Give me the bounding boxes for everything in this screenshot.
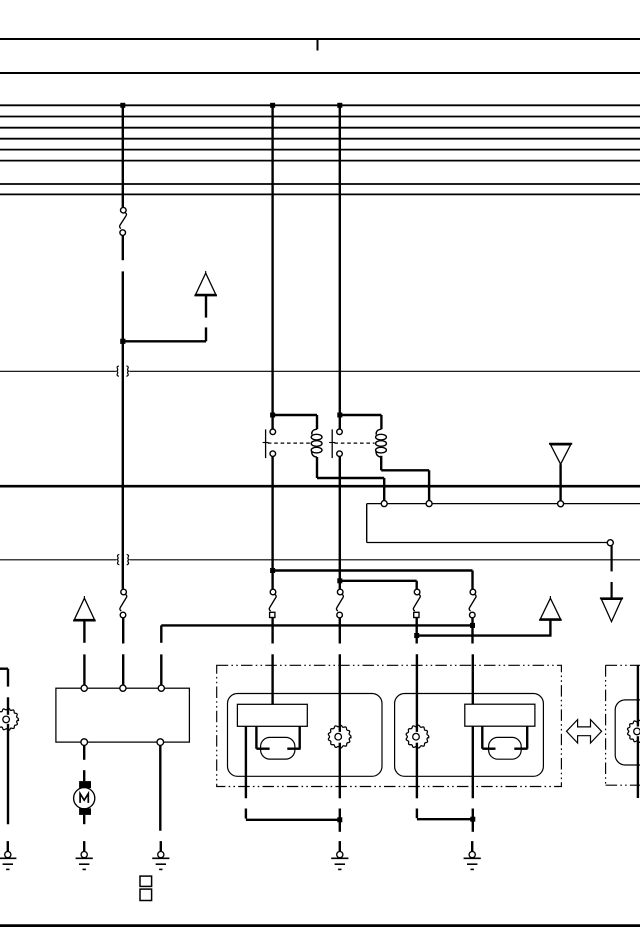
relay R1 switch bar <box>263 429 269 458</box>
terminal pin on connector line x384 <box>381 501 387 507</box>
terminal pin on connector line x429 <box>426 501 432 507</box>
boundary line 2 right segment <box>130 559 640 561</box>
ground G1 (left lamp) <box>0 841 16 869</box>
arrow D1 from other page (down) <box>549 444 572 464</box>
junction box J/B <box>56 688 190 742</box>
wire resumed into lamp LP0 <box>7 697 9 715</box>
fuse F4 <box>336 589 343 618</box>
wire lamp LP1 resumed <box>339 809 341 832</box>
lamp assembly 1 rounded outline <box>228 694 383 777</box>
bulb B1 (tail/stop lamp) <box>261 737 295 759</box>
wire connector line 1 <box>367 503 640 505</box>
wire fuse F6 into right housing <box>472 654 474 704</box>
node junction C on bundle <box>337 103 342 108</box>
wire housing2 output resumed <box>472 809 474 832</box>
bulb B2 (tail/stop lamp) <box>489 737 522 759</box>
wire below fuse F2 <box>122 618 124 644</box>
bulb B1 leg left <box>256 726 269 748</box>
lamp LP0 (side marker) <box>0 708 19 730</box>
boundary line 2 break hooks <box>117 554 129 564</box>
terminal box top 1 <box>81 685 87 691</box>
wire below pin to arrow D2 upper <box>610 546 612 572</box>
wire below fuse F3 <box>271 618 273 644</box>
wire below fuse F4 <box>339 618 341 644</box>
terminal box bottom 2 <box>157 739 164 746</box>
wire below fuse F5 <box>416 618 418 644</box>
lamp LP1 (turn signal) <box>328 725 351 748</box>
wire into coil L2 <box>380 415 382 429</box>
connector code square 1 <box>140 876 152 886</box>
relay R1 contact top <box>270 429 276 435</box>
node junction I <box>337 817 342 822</box>
wire lamp LP1 lower <box>339 743 341 799</box>
wire relay R1 top to coil <box>273 414 317 416</box>
ground G2 (motor) <box>76 841 93 869</box>
motor M brush bottom <box>79 808 91 815</box>
wire power bundle line 5 <box>0 149 640 151</box>
node junction relay R2 top <box>337 413 342 418</box>
arrow A3 from other page (up) <box>539 596 562 620</box>
ground G3 <box>152 841 169 869</box>
wire arrow branch vertical lower <box>205 327 207 341</box>
relay R1 contact bottom <box>270 451 276 457</box>
wire housing1 output <box>245 726 247 798</box>
arrow D2 to other page (down) <box>600 598 623 621</box>
wire power bundle line 4 <box>0 138 640 140</box>
wire arrow A3 down corner <box>549 620 551 636</box>
node junction H <box>470 623 475 628</box>
wire fuse F2 to box terminal <box>122 654 124 685</box>
wire coil L1 output step <box>317 457 384 501</box>
tick on bus line 1 <box>317 39 319 51</box>
bulb housing connector 2 <box>465 704 535 726</box>
wire arrow branch vertical upper <box>205 295 207 317</box>
lamp LP2 (turn signal) <box>406 725 429 748</box>
wire power bundle line 7 <box>0 183 640 185</box>
relay R2 switch bar <box>329 429 335 458</box>
right partial lamp assembly rounded outline <box>615 700 640 765</box>
terminal pin end of connector line 2 <box>607 540 613 546</box>
terminal box top 3 <box>158 685 164 691</box>
wire horizontal bus line 2 <box>0 72 640 74</box>
node junction A on bundle <box>120 103 125 108</box>
wire bus to arrow A3 <box>416 634 552 636</box>
wire arrow A2 to box terminal <box>83 654 85 685</box>
terminal pin on connector line x560 <box>558 501 564 507</box>
wire power bundle line 1 <box>0 104 640 106</box>
wire junction D down trunk <box>122 341 124 589</box>
boundary line 1 right segment <box>129 370 640 372</box>
wire node C down to relay R2 <box>339 105 341 429</box>
motor M body <box>74 788 95 809</box>
motor M brush top <box>79 781 91 788</box>
boundary line 2 left segment <box>0 559 116 561</box>
terminal box bottom 1 <box>81 739 88 746</box>
bulb B2 leg left <box>482 726 495 749</box>
wire connector line 2 <box>367 542 608 544</box>
wire box terminal to ground G3 <box>159 746 161 831</box>
wire into coil L1 <box>316 415 318 429</box>
fuse F3 <box>269 589 276 617</box>
ground G5 (right pair) <box>464 841 481 869</box>
right component box dash-dot top edge <box>606 664 640 666</box>
right component box dash-dot bottom edge <box>606 784 640 786</box>
fuse F6 <box>469 589 476 618</box>
relay R2 linkage dashed <box>334 442 374 444</box>
wire power bundle line 3 <box>0 127 640 129</box>
node junction B on bundle <box>270 103 275 108</box>
fuse F5 <box>413 589 420 617</box>
wire box to motor lower <box>83 770 85 781</box>
relay R1 coil L1 <box>311 429 322 457</box>
relay R2 contact bottom <box>337 451 343 457</box>
wire housing2 output <box>472 726 474 798</box>
wire housing1 output resumed hook <box>246 809 340 820</box>
lamp LP3 (right side, partial) <box>627 720 640 742</box>
wire from left edge corner <box>0 669 8 687</box>
wire ground bus thick line <box>0 485 640 488</box>
boundary line 1 left segment <box>0 370 116 372</box>
node junction E <box>270 568 275 573</box>
wire resumed to box terminal <box>160 654 162 685</box>
fuse F1 <box>120 207 127 235</box>
wire fuse F4 to lamp LP1 upper <box>339 654 341 732</box>
wire node B down to relay R1 <box>271 105 273 429</box>
wire below fuse F1 <box>122 235 124 260</box>
wire below arrow A2 <box>83 621 85 643</box>
bulb housing connector 1 <box>237 704 307 726</box>
wire right partial lamp <box>637 665 639 798</box>
wire lamp LP0 filament out <box>7 724 9 824</box>
bulb B1 leg right <box>287 726 300 748</box>
wire junction F to fuse F5 branch <box>340 581 417 590</box>
node junction J <box>470 817 475 822</box>
connector code square 2 <box>140 889 152 900</box>
node junction F <box>337 578 342 583</box>
wire box to motor upper <box>83 746 85 760</box>
wire left corner of bus to box <box>160 625 162 642</box>
wire from node A down to fuse F1 <box>122 105 124 207</box>
wire connector drop vertical <box>366 504 368 543</box>
wire fuse F3 into lamp housing <box>271 654 273 704</box>
wire fuse F5 to lamp LP2 upper <box>416 654 418 732</box>
wire motor to ground <box>83 815 85 824</box>
wire resuming to junction D <box>122 271 124 341</box>
bulb B2 leg right <box>514 726 527 749</box>
right component box dash-dot left edge <box>605 665 607 785</box>
terminal box top 2 <box>120 685 126 691</box>
ground G4 (left pair) <box>331 841 348 869</box>
wire bus lower left <box>161 624 472 626</box>
arrow A1 to other page (up) <box>194 271 217 296</box>
wire power bundle line 6 <box>0 160 640 162</box>
wire power bundle line 8 <box>0 193 640 195</box>
wire lamp LP2 lower <box>416 743 418 799</box>
wire junction D to arrow branch <box>123 340 206 342</box>
wire junction E to fuse F6 branch <box>273 571 473 590</box>
node junction relay R1 top <box>270 413 275 418</box>
node junction D <box>120 339 125 344</box>
wire coil L2 output step <box>381 456 429 501</box>
frame bottom border line <box>0 924 640 927</box>
relay R2 coil L2 <box>376 429 387 457</box>
lamp assembly 2 rounded outline <box>395 694 544 777</box>
wire relay R2 switch output <box>339 456 341 589</box>
wire horizontal bus line 1 <box>0 38 640 40</box>
relay R1 linkage dashed <box>268 442 310 444</box>
arrow A2 from other page (up) <box>73 596 96 621</box>
wire below fuse F6 through junction H <box>471 618 473 644</box>
wire lamp LP2 resumed hook <box>417 809 473 820</box>
wire relay R1 switch output <box>271 456 273 589</box>
wire below pin to arrow D2 lower <box>610 582 612 598</box>
node junction G <box>414 633 419 638</box>
wire power bundle line 2 <box>0 116 640 118</box>
relay R2 contact top <box>337 429 343 435</box>
double arrow symbol (continued) <box>567 720 602 743</box>
wire below arrow D1 <box>559 464 561 501</box>
boundary line 1 break hooks <box>117 366 129 376</box>
wire relay R2 top to coil <box>340 414 382 416</box>
fuse F2 <box>120 589 127 618</box>
component box (combination lamp unit) dash-dot outline <box>217 665 562 786</box>
